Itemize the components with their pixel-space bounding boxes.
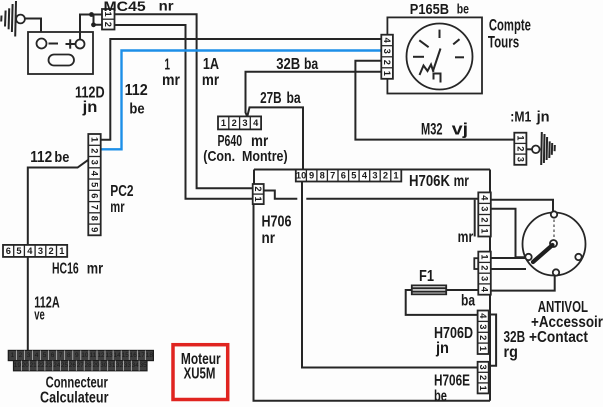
svg-text:7: 7 bbox=[330, 171, 335, 181]
svg-text:1: 1 bbox=[478, 386, 488, 391]
wire ground to battery bbox=[25, 19, 41, 33]
wire 32B ba P640 pin3 to P165B pin1 bbox=[246, 72, 382, 117]
svg-text:6: 6 bbox=[6, 246, 11, 256]
battery bbox=[28, 32, 93, 74]
svg-text:mr: mr bbox=[110, 199, 124, 216]
svg-text:20: 20 bbox=[22, 362, 30, 369]
connector B 4-pin bbox=[478, 252, 491, 295]
connector H706D 4-pin bbox=[478, 311, 489, 355]
svg-text:mr: mr bbox=[458, 229, 474, 246]
wire connector A pin4 to ANTIVOL top contact bbox=[491, 200, 553, 211]
svg-text:vj: vj bbox=[452, 121, 468, 139]
svg-text:21: 21 bbox=[29, 362, 37, 369]
svg-text:be: be bbox=[434, 388, 447, 405]
svg-text:be: be bbox=[457, 1, 469, 17]
wire 27B ba P640 pin3 to H706K pin10 bbox=[247, 107, 303, 169]
wire H706K pin10 down to H706E pin3 bbox=[302, 182, 478, 368]
wire to connector A pin4 bbox=[306, 198, 478, 200]
svg-text:32B: 32B bbox=[276, 56, 300, 73]
svg-text:1: 1 bbox=[480, 254, 490, 259]
connector B left bump bbox=[474, 258, 478, 269]
svg-text:mr: mr bbox=[162, 72, 180, 89]
fuse F1 bbox=[412, 285, 446, 294]
svg-text:M32: M32 bbox=[421, 121, 443, 139]
svg-text:23: 23 bbox=[45, 362, 53, 369]
svg-text:2: 2 bbox=[478, 335, 488, 340]
svg-text:Tours: Tours bbox=[488, 34, 519, 52]
svg-text:112: 112 bbox=[125, 82, 148, 99]
svg-text:mr: mr bbox=[87, 261, 103, 278]
svg-text:22: 22 bbox=[37, 362, 45, 369]
wire connector A pin3 to ANTIVOL left contact bbox=[491, 209, 525, 258]
svg-text:PC2: PC2 bbox=[110, 183, 133, 200]
svg-text:+Contact: +Contact bbox=[529, 329, 589, 346]
svg-text:9: 9 bbox=[75, 352, 79, 359]
svg-text:18: 18 bbox=[146, 352, 154, 359]
svg-text:9: 9 bbox=[309, 171, 314, 181]
svg-text:33: 33 bbox=[124, 362, 132, 369]
svg-text:ba: ba bbox=[304, 56, 318, 73]
svg-text:1: 1 bbox=[382, 71, 392, 76]
wire 112 be leader and 112A down wire bbox=[28, 160, 89, 351]
svg-text:4: 4 bbox=[480, 287, 490, 293]
svg-text:Compte: Compte bbox=[489, 17, 531, 35]
wire 112 be blue PC2 pin2 to P165B pin3 bbox=[101, 51, 382, 150]
wire 112D jn PC2 pin1 to P165B pin4 bbox=[101, 39, 382, 140]
wire H706 right step bbox=[264, 191, 298, 199]
svg-text:3: 3 bbox=[38, 246, 43, 256]
wire F1 right to connector B pin4 bbox=[446, 289, 478, 291]
svg-text:1: 1 bbox=[90, 137, 100, 142]
wire central harness top bbox=[254, 169, 490, 171]
svg-text:4: 4 bbox=[27, 246, 33, 256]
svg-text:5: 5 bbox=[90, 182, 100, 187]
connector Connecteur Calculateur ECU row 1 bbox=[8, 350, 153, 360]
svg-text:rg: rg bbox=[504, 344, 518, 361]
svg-text:F1: F1 bbox=[419, 268, 434, 285]
svg-text:2: 2 bbox=[515, 146, 525, 151]
ground chassis earth at battery bbox=[1, 1, 25, 37]
ground M1 earth bbox=[526, 132, 554, 165]
wire connector B pin4 to ANTIVOL bottom contact bbox=[491, 276, 555, 291]
svg-text:4: 4 bbox=[480, 195, 490, 201]
svg-text:26: 26 bbox=[69, 362, 77, 369]
svg-text:2: 2 bbox=[103, 22, 113, 27]
svg-text:ve: ve bbox=[34, 308, 45, 324]
svg-text:34: 34 bbox=[132, 362, 140, 369]
wire right vertical bus bbox=[489, 170, 491, 401]
svg-text:2: 2 bbox=[19, 352, 23, 359]
svg-text:27: 27 bbox=[77, 362, 85, 369]
svg-text:29: 29 bbox=[92, 362, 100, 369]
svg-text:MC45: MC45 bbox=[104, 0, 147, 14]
connector A 4-pin mr bbox=[478, 192, 491, 236]
wire bracket 32B rg bbox=[489, 315, 496, 366]
svg-text:27B: 27B bbox=[260, 90, 282, 107]
svg-text:11: 11 bbox=[90, 352, 97, 359]
svg-text:12: 12 bbox=[97, 352, 105, 359]
connector A left half bbox=[474, 200, 476, 237]
wire left vertical below H706 and bottom bbox=[254, 204, 491, 401]
svg-text:3: 3 bbox=[480, 276, 490, 281]
svg-text:HC16: HC16 bbox=[52, 261, 79, 278]
svg-text:25: 25 bbox=[61, 362, 69, 369]
svg-text:6: 6 bbox=[90, 193, 100, 198]
svg-text:9: 9 bbox=[90, 227, 100, 232]
svg-text:4: 4 bbox=[362, 171, 368, 181]
connector MC45 bbox=[102, 9, 115, 30]
svg-text:1: 1 bbox=[393, 171, 398, 181]
connector Connecteur Calculateur ECU row 2 bbox=[14, 361, 148, 371]
svg-text:30: 30 bbox=[100, 362, 108, 369]
svg-text:8: 8 bbox=[90, 216, 100, 221]
wire branch to MC45 pin2 bbox=[94, 15, 103, 25]
svg-text:8: 8 bbox=[67, 352, 71, 359]
svg-text:2: 2 bbox=[478, 375, 488, 380]
svg-text:nr: nr bbox=[159, 0, 174, 14]
svg-text:H706: H706 bbox=[262, 213, 292, 230]
svg-text:XU5M: XU5M bbox=[184, 366, 216, 383]
tachometer outer box bbox=[387, 17, 482, 93]
connector H706E 3-pin bbox=[478, 362, 489, 394]
svg-text:3: 3 bbox=[382, 49, 392, 54]
svg-text:3: 3 bbox=[478, 365, 488, 370]
wire connector B pin1 to ANTIVOL left contact bbox=[491, 257, 525, 259]
svg-text:5: 5 bbox=[43, 352, 47, 359]
connector HC16 6-pin bbox=[3, 245, 67, 257]
svg-text:H706E: H706E bbox=[434, 373, 470, 390]
svg-text:4: 4 bbox=[90, 171, 100, 177]
svg-text:ba: ba bbox=[461, 293, 475, 310]
connector PC2 9-pin bbox=[88, 134, 100, 235]
ANTIVOL ignition switch bbox=[523, 211, 586, 275]
svg-text:4: 4 bbox=[478, 313, 488, 319]
svg-text:16: 16 bbox=[130, 352, 138, 359]
svg-text:1: 1 bbox=[165, 57, 171, 74]
svg-text:1: 1 bbox=[478, 346, 488, 351]
svg-text:P165B: P165B bbox=[410, 1, 449, 18]
svg-text:4: 4 bbox=[382, 38, 392, 44]
svg-text:3: 3 bbox=[480, 206, 490, 211]
wire connector B pin2 to ANTIVOL key bbox=[491, 268, 526, 270]
svg-text:1: 1 bbox=[515, 135, 525, 140]
svg-text:(Con. Montre): (Con. Montre) bbox=[203, 148, 287, 165]
wire left vertical to H706 bbox=[253, 170, 255, 185]
svg-text:17: 17 bbox=[138, 352, 146, 359]
svg-text:15: 15 bbox=[122, 352, 130, 359]
svg-text:Calculateur: Calculateur bbox=[40, 389, 109, 406]
svg-text:2: 2 bbox=[383, 171, 388, 181]
svg-text:13: 13 bbox=[105, 352, 113, 359]
red frame Moteur XU5M bbox=[173, 345, 228, 400]
svg-text:2: 2 bbox=[49, 246, 54, 256]
svg-text:1A: 1A bbox=[203, 56, 219, 73]
svg-text:4: 4 bbox=[253, 118, 259, 128]
connector H706K 10-pin bbox=[296, 170, 402, 182]
svg-text:mr: mr bbox=[454, 173, 469, 190]
svg-text:1: 1 bbox=[10, 352, 14, 359]
svg-text:6: 6 bbox=[51, 352, 55, 359]
svg-text:10: 10 bbox=[296, 171, 306, 181]
svg-text:1: 1 bbox=[221, 118, 226, 128]
svg-text:2: 2 bbox=[480, 265, 490, 270]
svg-text:3: 3 bbox=[515, 157, 525, 162]
svg-text:3: 3 bbox=[27, 352, 31, 359]
svg-text:3: 3 bbox=[242, 118, 247, 128]
svg-text:2: 2 bbox=[253, 186, 263, 191]
svg-text:35: 35 bbox=[139, 362, 147, 369]
svg-text:28: 28 bbox=[84, 362, 92, 369]
svg-text:2: 2 bbox=[382, 60, 392, 65]
svg-text:5: 5 bbox=[351, 171, 356, 181]
wire battery plus to MC45 pin1 bbox=[80, 15, 102, 40]
svg-text:31: 31 bbox=[108, 362, 116, 369]
svg-text:3: 3 bbox=[90, 160, 100, 165]
svg-text:8: 8 bbox=[320, 171, 325, 181]
svg-text:5: 5 bbox=[16, 246, 21, 256]
svg-text:4: 4 bbox=[35, 352, 39, 359]
svg-text:112: 112 bbox=[30, 149, 52, 166]
connector M1 3-pin bbox=[514, 133, 526, 165]
svg-text:32: 32 bbox=[116, 362, 124, 369]
svg-text:24: 24 bbox=[53, 362, 61, 369]
svg-text:be: be bbox=[54, 149, 69, 166]
connector P640 4-pin bbox=[218, 116, 261, 129]
svg-text:14: 14 bbox=[113, 352, 121, 359]
tachometer gauge face Compte Tours bbox=[407, 24, 473, 90]
svg-text:6: 6 bbox=[341, 171, 346, 181]
connector P165B 4-pin bbox=[381, 35, 393, 79]
svg-text:3: 3 bbox=[478, 324, 488, 329]
svg-text:10: 10 bbox=[81, 352, 89, 359]
svg-text::M1: :M1 bbox=[510, 109, 531, 126]
svg-text:nr: nr bbox=[262, 230, 276, 247]
svg-text:ba: ba bbox=[287, 90, 301, 107]
junction node bbox=[89, 12, 94, 17]
svg-text:jn: jn bbox=[536, 109, 550, 126]
svg-text:1: 1 bbox=[59, 246, 64, 256]
wire M32 vj P165B pin2 to M1 bbox=[355, 61, 514, 140]
svg-text:1: 1 bbox=[253, 197, 263, 202]
wire MC45 pin2 to H706 pin1 (1 mr) bbox=[115, 25, 253, 199]
wire F1 left to H706D pin4 bbox=[406, 290, 478, 315]
svg-text:be: be bbox=[129, 100, 144, 117]
svg-text:2: 2 bbox=[480, 217, 490, 222]
svg-text:3: 3 bbox=[372, 171, 377, 181]
svg-text:2: 2 bbox=[232, 118, 237, 128]
svg-text:19: 19 bbox=[14, 362, 22, 369]
wire MC45 pin1 to H706 pin2 (1A mr) bbox=[115, 14, 253, 188]
svg-text:jn: jn bbox=[82, 99, 98, 116]
svg-text:7: 7 bbox=[59, 352, 63, 359]
svg-text:7: 7 bbox=[90, 205, 100, 210]
svg-text:2: 2 bbox=[90, 148, 100, 153]
svg-text:jn: jn bbox=[435, 340, 449, 357]
svg-text:H706K: H706K bbox=[409, 173, 451, 190]
svg-text:mr: mr bbox=[202, 72, 219, 89]
junction node bbox=[91, 22, 96, 27]
connector H706 2-pin bbox=[253, 184, 264, 204]
svg-text:1: 1 bbox=[480, 228, 490, 233]
